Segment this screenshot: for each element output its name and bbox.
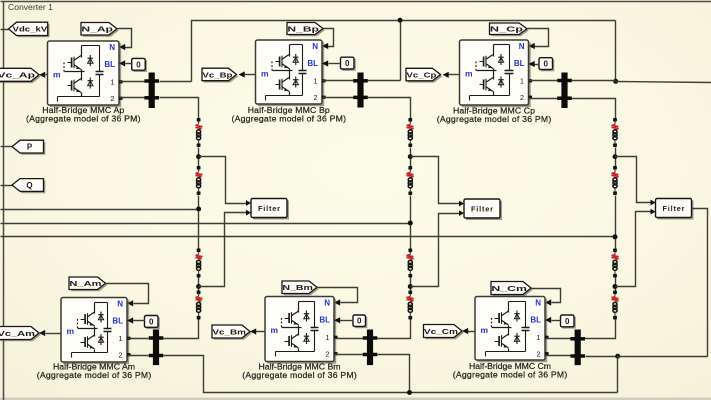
constant 0 block phase Bm	[353, 315, 367, 328]
wire Cp bar to arm reactor C	[572, 99, 616, 120]
wire junction B to Filter B input 2	[411, 210, 465, 286]
goto tag Vc_Cm	[424, 325, 464, 340]
svg-text:m: m	[67, 326, 75, 336]
wire Cm bar to bottom junction	[586, 356, 618, 358]
svg-text:N: N	[117, 300, 123, 309]
half-bridge MMC Am block U4	[61, 298, 131, 365]
svg-text:0: 0	[544, 60, 549, 69]
wire m Am to Vc_Am	[39, 330, 62, 336]
svg-text:Vc_Cp: Vc_Cp	[406, 70, 436, 79]
svg-text:(Aggregate model of 36 PM): (Aggregate model of 36 PM)	[242, 370, 357, 380]
constant 0 block phase Bp	[341, 57, 356, 71]
arm RL branch C1	[612, 118, 619, 147]
svg-text:N: N	[519, 42, 525, 51]
svg-text:Vc_Bp: Vc_Bp	[202, 70, 232, 79]
wire B2 to output junction	[410, 196, 412, 249]
svg-text:N_Am: N_Am	[69, 279, 101, 288]
svg-text:BL: BL	[112, 316, 123, 325]
svg-text:N: N	[109, 43, 115, 52]
wire 0 to BL Cm	[545, 317, 561, 323]
goto tag P	[12, 140, 45, 155]
filter block phase A	[251, 199, 289, 220]
wire reactor A to bar Am	[161, 320, 199, 339]
goto tag Vdc_kV	[9, 22, 50, 37]
svg-text:(Aggregate model of 36 PM): (Aggregate model of 36 PM)	[26, 114, 141, 124]
half-bridge MMC Cp block U3	[460, 40, 533, 107]
svg-text:BL: BL	[514, 59, 525, 68]
label Half-Bridge MMC Cm	[453, 361, 568, 379]
wire Cp port1 to bar	[529, 80, 558, 82]
half-bridge MMC Bp block U2	[256, 40, 326, 106]
junction phase C output	[613, 234, 618, 239]
wire DC bus to right edge	[616, 82, 711, 83]
svg-text:N: N	[535, 299, 541, 308]
svg-text:2: 2	[325, 350, 329, 359]
wire 0 to BL Am	[127, 317, 145, 323]
arm RL branch A1	[196, 118, 203, 147]
constant 0 block phase Am	[145, 316, 160, 330]
bus bar selector phase Am	[149, 330, 164, 366]
svg-text:N: N	[312, 42, 318, 51]
wire Am port2 to bar	[128, 355, 149, 357]
svg-text:Vdc_kV: Vdc_kV	[13, 25, 49, 34]
wire Bp bar to arm reactor B	[368, 98, 411, 119]
svg-text:(Aggregate model of 36 PM): (Aggregate model of 36 PM)	[437, 114, 552, 124]
bus bar selector phase Bp	[353, 73, 368, 108]
goto tag Q	[12, 179, 45, 194]
svg-text:2: 2	[536, 350, 540, 359]
wire to Vdc_kV	[1, 29, 9, 31]
svg-text:Q: Q	[26, 181, 32, 190]
bus bar selector phase Ap	[144, 73, 159, 109]
junction phase B upper	[408, 154, 413, 159]
wire Bp bar to DC bus riser	[368, 80, 401, 82]
wire Cm port1 to bar	[546, 338, 571, 340]
svg-text:Vc_Bm: Vc_Bm	[212, 327, 246, 336]
wire phase A output to left edge	[1, 209, 199, 211]
wire Am port1 to bar	[128, 338, 149, 340]
junction bottom bus phase C	[615, 354, 620, 359]
wire N_Bm to N port	[318, 288, 358, 306]
wire phase B output to left edge	[1, 223, 411, 225]
svg-text:Vc_Cm: Vc_Cm	[424, 327, 458, 336]
constant 0 block phase Ap	[132, 58, 147, 72]
wire N_Cp to N port	[528, 29, 549, 50]
wire Bm port1 to bar	[335, 338, 363, 340]
junction phase A output	[196, 207, 201, 212]
wire Ap bar to DC bus riser	[160, 81, 192, 83]
wire m Bp to Vc_Bp	[239, 71, 256, 77]
wire 0 to BL Bm	[334, 317, 354, 323]
wire Ap bar to arm reactor A	[160, 98, 199, 119]
filter block phase C	[656, 199, 694, 220]
wire C1 to junction	[615, 148, 617, 167]
arm RL branch B1	[407, 118, 414, 147]
wire 0 to BL Bp	[322, 60, 341, 66]
junction phase A upper	[196, 154, 201, 159]
wire junction A to Filter A input 2	[199, 210, 252, 287]
arm RL branch B2	[407, 166, 414, 195]
svg-text:0: 0	[345, 59, 350, 68]
svg-text:2: 2	[313, 93, 317, 102]
svg-text:1: 1	[325, 333, 329, 342]
wire 0 to BL Ap	[119, 60, 132, 66]
wire N_Bp to N port	[322, 29, 334, 50]
label Half-Bridge MMC Ap	[26, 105, 141, 123]
junction top bus phase B	[398, 18, 403, 23]
arm RL branch A4	[196, 291, 203, 320]
svg-text:0: 0	[149, 317, 154, 326]
wire m Bm to Vc_Bm	[250, 328, 266, 334]
arm RL branch A3	[196, 249, 203, 278]
svg-text:2: 2	[118, 351, 122, 360]
bus bar selector phase Cm	[570, 330, 585, 366]
wire reactor B to bar Bm	[375, 320, 411, 339]
svg-text:m: m	[481, 325, 489, 335]
svg-text:(Aggregate model of 36 PM): (Aggregate model of 36 PM)	[453, 370, 568, 380]
wire N_Am to N port	[106, 284, 149, 307]
label Half-Bridge MMC Am	[37, 362, 152, 380]
wire to P	[1, 146, 13, 148]
constant 0 block phase Cp	[539, 58, 554, 72]
wire junction C to Filter C input 2	[616, 209, 656, 287]
wire bottom junction riser	[617, 357, 619, 393]
svg-text:2: 2	[520, 93, 524, 102]
from tag N_Bm	[282, 281, 319, 295]
svg-text:N_Cp: N_Cp	[490, 25, 524, 34]
bus bar selector phase Cp	[557, 73, 572, 109]
svg-text:m: m	[53, 70, 61, 80]
constant 0 block phase Cm	[561, 315, 576, 329]
svg-text:Converter 1: Converter 1	[8, 2, 53, 12]
wire top DC bus	[192, 21, 616, 82]
goto tag Vc_Am	[0, 327, 41, 342]
svg-text:Vc_Am: Vc_Am	[0, 329, 35, 338]
wire junction B to Filter B input 1	[411, 157, 465, 207]
svg-text:N_Cm: N_Cm	[491, 284, 527, 293]
wire N_Ap to N port	[118, 29, 132, 51]
wire C3 to lower junction	[615, 278, 617, 291]
wire reactor C to bar Cm	[583, 320, 616, 339]
label Half-Bridge MMC Bp	[232, 105, 347, 123]
svg-text:(Aggregate model of 36 PM): (Aggregate model of 36 PM)	[37, 370, 152, 380]
junction top bus phase C	[613, 79, 618, 84]
arm RL branch C3	[612, 249, 619, 278]
label Half-Bridge MMC Bm	[242, 362, 357, 380]
from tag N_Ap	[81, 23, 119, 37]
svg-text:m: m	[271, 325, 279, 335]
svg-text:BL: BL	[530, 315, 541, 324]
wire Cp port2 to bar	[529, 98, 558, 100]
svg-text:0: 0	[136, 60, 141, 69]
svg-text:Filter: Filter	[471, 204, 493, 213]
from tag N_Am	[69, 277, 107, 291]
wire Cp bar to DC junction	[572, 80, 616, 82]
wire Bp port1 to bar	[323, 80, 354, 82]
wire bottom junction to filter loop	[618, 356, 708, 358]
svg-text:0: 0	[565, 317, 570, 326]
half-bridge MMC Ap block U1	[48, 41, 123, 107]
wire m Cm to Vc_Cm	[462, 328, 476, 334]
arm RL branch C4	[612, 291, 619, 320]
wire N_Cm to N port	[532, 289, 561, 306]
half-bridge MMC Bm block U5	[265, 297, 338, 364]
wire B3 to lower junction	[410, 278, 412, 291]
bus bar selector phase Bm	[363, 330, 378, 366]
junction bottom bus phase B	[407, 390, 412, 395]
wire m Ap to Vc_Ap	[39, 72, 48, 78]
wire phase C output to left edge	[1, 236, 616, 238]
svg-text:Filter: Filter	[258, 204, 280, 213]
junction phase B lower	[408, 284, 413, 289]
wire to Q	[1, 185, 13, 187]
junction phase C upper	[613, 154, 618, 159]
svg-text:m: m	[465, 69, 473, 79]
junction phase C lower	[613, 284, 618, 289]
wire Ap port2 to bar	[120, 97, 145, 99]
wire B1 to junction	[410, 148, 412, 167]
junction phase B output	[408, 221, 413, 226]
goto tag Vc_Bm	[212, 325, 252, 340]
svg-text:2: 2	[110, 94, 114, 103]
svg-text:P: P	[27, 142, 33, 151]
svg-text:Vc_Ap: Vc_Ap	[0, 71, 36, 80]
wire A1 to junction	[198, 148, 200, 167]
junction phase A lower	[196, 284, 201, 289]
wire Am bar to bottom bus	[164, 356, 618, 393]
svg-text:Filter: Filter	[663, 204, 685, 213]
svg-text:N_Bm: N_Bm	[282, 283, 313, 292]
wire Bm port2 to bar	[335, 354, 363, 356]
svg-text:BL: BL	[104, 60, 115, 69]
wire junction A to Filter A input 1	[199, 157, 252, 206]
wire junction C to Filter C input 1	[616, 157, 656, 206]
arm RL branch B4	[407, 291, 414, 320]
filter block phase B	[464, 199, 502, 220]
svg-text:1: 1	[118, 334, 122, 343]
goto tag Vc_Ap	[0, 68, 41, 83]
svg-text:1: 1	[313, 77, 317, 86]
svg-text:N: N	[324, 299, 330, 308]
arm RL branch C2	[612, 166, 619, 195]
wire A3 to lower junction	[198, 278, 200, 291]
svg-text:N_Bp: N_Bp	[287, 24, 319, 33]
arm RL branch B3	[407, 249, 414, 278]
svg-text:(Aggregate model of 36 PM): (Aggregate model of 36 PM)	[232, 114, 347, 124]
from tag N_Bp	[287, 23, 325, 37]
wire 0 to BL Cp	[529, 61, 540, 67]
wire A2 to output junction	[198, 196, 200, 249]
half-bridge MMC Cm block U6	[475, 297, 549, 363]
goto tag Vc_Cp	[406, 68, 442, 82]
svg-text:BL: BL	[307, 59, 318, 68]
svg-text:1: 1	[536, 333, 540, 342]
svg-text:m: m	[261, 69, 269, 79]
wire Ap port1 to bar	[120, 81, 145, 83]
wire m Cp to Vc_Cp	[443, 72, 460, 78]
svg-text:0: 0	[357, 317, 362, 326]
svg-text:1: 1	[110, 78, 114, 87]
wire Bp port2 to bar	[323, 97, 354, 99]
wire Bm bar to bottom bus	[378, 355, 410, 393]
wire Cm port2 to bar	[546, 355, 571, 357]
wire C2 to output junction	[615, 196, 617, 249]
goto tag Vc_Bp	[202, 68, 238, 82]
svg-text:BL: BL	[319, 315, 330, 324]
svg-text:1: 1	[520, 77, 524, 86]
wire Filter C output loop	[692, 209, 708, 357]
title Converter 1	[8, 2, 53, 12]
arm RL branch A2	[196, 166, 203, 195]
from tag N_Cp	[490, 23, 529, 36]
from tag N_Cm	[491, 282, 533, 297]
label Half-Bridge MMC Cp	[437, 106, 552, 124]
svg-text:N_Ap: N_Ap	[81, 25, 113, 34]
